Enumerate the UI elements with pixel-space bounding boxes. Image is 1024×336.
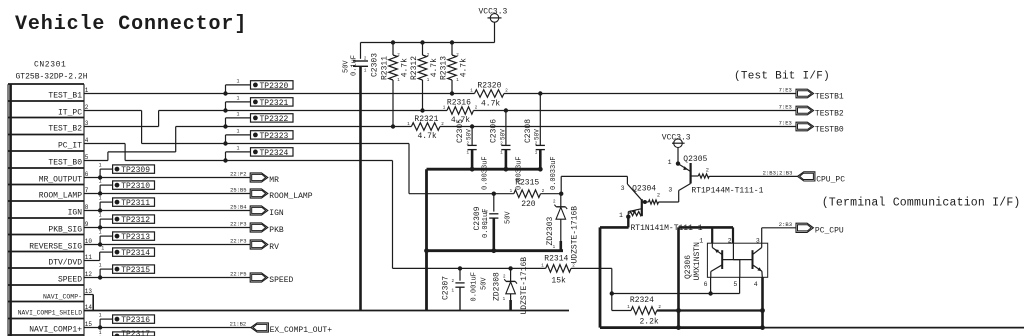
svg-text:2.2k: 2.2k (640, 317, 659, 326)
svg-text:1: 1 (99, 179, 102, 185)
svg-text:TP2312: TP2312 (121, 216, 150, 225)
svg-text:25:B4: 25:B4 (230, 204, 247, 211)
svg-text:21:B2: 21:B2 (230, 321, 247, 328)
svg-text:TP2314: TP2314 (121, 249, 150, 258)
svg-text:R2320: R2320 (477, 82, 501, 91)
svg-text:(Terminal Communication I/F): (Terminal Communication I/F) (822, 196, 1021, 209)
svg-text:TP2321: TP2321 (260, 99, 289, 108)
svg-text:1: 1 (99, 313, 102, 319)
svg-text:PC_CPU: PC_CPU (815, 227, 844, 236)
svg-text:NAVI_COMP-: NAVI_COMP- (43, 294, 82, 301)
svg-text:1: 1 (237, 96, 240, 102)
svg-text:5: 5 (733, 281, 737, 288)
svg-text:3: 3 (668, 187, 672, 194)
svg-text:0.1uF: 0.1uF (350, 55, 358, 76)
svg-text:1: 1 (668, 159, 672, 166)
svg-text:1: 1 (99, 196, 102, 202)
svg-text:R2313: R2313 (440, 56, 449, 80)
svg-text:C2305: C2305 (456, 119, 465, 143)
svg-text:TP2311: TP2311 (121, 199, 150, 208)
svg-text:PC_IT: PC_IT (58, 142, 82, 151)
svg-text:CN2301: CN2301 (34, 61, 66, 70)
svg-text:13: 13 (85, 288, 93, 295)
svg-text:15: 15 (85, 321, 93, 328)
svg-text:2:B3;2:B3: 2:B3;2:B3 (763, 169, 793, 176)
svg-text:3: 3 (621, 185, 625, 192)
svg-text:1: 1 (99, 330, 102, 336)
svg-text:4: 4 (85, 137, 89, 144)
svg-text:7:E3: 7:E3 (779, 103, 792, 110)
svg-text:R2324: R2324 (630, 296, 654, 305)
svg-text:50V: 50V (505, 211, 513, 224)
svg-text:50V: 50V (534, 129, 541, 140)
svg-text:0.0033uF: 0.0033uF (482, 156, 490, 190)
svg-text:RV: RV (269, 243, 279, 252)
svg-text:3: 3 (85, 120, 89, 127)
svg-text:12: 12 (85, 271, 93, 278)
svg-text:1: 1 (99, 213, 102, 219)
svg-text:IGN: IGN (269, 209, 284, 218)
svg-text:2: 2 (706, 168, 709, 174)
svg-text:TESTB2: TESTB2 (815, 110, 844, 119)
svg-text:TP2324: TP2324 (260, 149, 289, 158)
svg-text:1: 1 (101, 246, 104, 252)
svg-text:2:B3: 2:B3 (779, 221, 792, 228)
svg-text:1: 1 (237, 79, 240, 85)
svg-text:1: 1 (619, 212, 623, 219)
svg-text:3: 3 (756, 237, 760, 244)
svg-text:4.7k: 4.7k (481, 99, 500, 108)
svg-text:VCC3.3: VCC3.3 (662, 134, 691, 143)
svg-text:MR_OUTPUT: MR_OUTPUT (39, 176, 82, 185)
svg-text:PKB: PKB (269, 226, 284, 235)
svg-text:TEST_B2: TEST_B2 (48, 125, 82, 134)
svg-text:TESTB0: TESTB0 (815, 126, 844, 135)
svg-text:4.7k: 4.7k (418, 132, 437, 141)
svg-text:50V: 50V (466, 129, 473, 140)
svg-text:6: 6 (85, 171, 89, 178)
svg-text:Q2304: Q2304 (632, 185, 656, 194)
svg-text:TP2310: TP2310 (121, 182, 150, 191)
svg-text:4.7k: 4.7k (460, 58, 469, 77)
svg-text:UDZSTE-1716B: UDZSTE-1716B (520, 257, 529, 315)
svg-text:1: 1 (237, 129, 240, 135)
svg-text:IGN: IGN (68, 209, 83, 218)
svg-text:TP2309: TP2309 (121, 166, 150, 175)
svg-text:220: 220 (521, 200, 536, 209)
svg-text:ZD2303: ZD2303 (546, 216, 555, 245)
svg-text:Q2305: Q2305 (683, 155, 707, 164)
svg-text:NAVI_COMP1_SHIELD: NAVI_COMP1_SHIELD (18, 310, 82, 317)
svg-text:PKB_SIG: PKB_SIG (48, 226, 82, 235)
svg-text:1: 1 (99, 263, 102, 269)
svg-text:R2315: R2315 (515, 178, 539, 187)
svg-text:SPEED: SPEED (58, 276, 82, 285)
svg-text:ROOM_LAMP: ROOM_LAMP (39, 192, 82, 201)
svg-text:0.0033uF: 0.0033uF (550, 156, 558, 190)
svg-text:9: 9 (85, 221, 89, 228)
svg-text:2: 2 (85, 104, 89, 111)
svg-text:4: 4 (754, 281, 758, 288)
svg-text:IT_PC: IT_PC (58, 109, 82, 118)
svg-text:5: 5 (85, 154, 89, 161)
svg-text:TP2323: TP2323 (260, 132, 289, 141)
svg-text:TEST_B0: TEST_B0 (48, 159, 82, 168)
svg-text:22:F3: 22:F3 (230, 238, 247, 245)
svg-text:TP2320: TP2320 (260, 82, 289, 91)
svg-text:7: 7 (85, 187, 89, 194)
svg-text:DTV/DVD: DTV/DVD (48, 259, 82, 268)
svg-text:R2321: R2321 (414, 115, 438, 124)
svg-text:1: 1 (237, 146, 240, 152)
svg-text:UMX1NSTN: UMX1NSTN (693, 242, 702, 281)
svg-text:TESTB1: TESTB1 (815, 93, 844, 102)
svg-text:REVERSE_SIG: REVERSE_SIG (29, 243, 82, 252)
svg-text:50V: 50V (480, 277, 488, 290)
svg-text:4.7k: 4.7k (401, 58, 410, 77)
svg-text:(Test Bit I/F): (Test Bit I/F) (734, 71, 830, 83)
svg-text:NAVI_COMP1+: NAVI_COMP1+ (29, 326, 82, 335)
svg-text:R2311: R2311 (381, 56, 390, 80)
svg-text:CPU_PC: CPU_PC (816, 175, 845, 184)
svg-text:C2309: C2309 (473, 206, 482, 230)
svg-text:C2307: C2307 (442, 276, 451, 300)
svg-text:R2312: R2312 (410, 56, 419, 80)
svg-text:GT25B-32DP-2.2H: GT25B-32DP-2.2H (16, 73, 88, 82)
svg-text:VCC3.3: VCC3.3 (479, 8, 508, 17)
svg-text:22:F3: 22:F3 (230, 221, 247, 228)
svg-text:1: 1 (99, 230, 102, 236)
svg-text:10: 10 (85, 238, 93, 245)
svg-text:1: 1 (85, 87, 89, 94)
svg-text:Vehicle Connector]: Vehicle Connector] (15, 13, 247, 36)
svg-text:C2303: C2303 (371, 53, 380, 77)
svg-text:50V: 50V (499, 129, 506, 140)
svg-text:7:E3: 7:E3 (779, 86, 792, 93)
svg-text:7:E3: 7:E3 (779, 119, 792, 126)
svg-text:MR: MR (269, 176, 279, 185)
svg-text:C2306: C2306 (490, 119, 499, 143)
svg-text:25:B5: 25:B5 (230, 187, 247, 194)
svg-text:TP2313: TP2313 (121, 233, 150, 242)
svg-text:1: 1 (99, 163, 102, 169)
svg-text:TP2316: TP2316 (121, 316, 150, 325)
svg-text:R2314: R2314 (544, 254, 568, 263)
svg-text:22:F2: 22:F2 (230, 171, 247, 178)
svg-text:6: 6 (704, 281, 708, 288)
svg-text:1: 1 (699, 237, 703, 244)
svg-text:ROOM_LAMP: ROOM_LAMP (269, 192, 312, 201)
svg-text:RT1P144M-T111-1: RT1P144M-T111-1 (691, 186, 763, 195)
svg-text:8: 8 (85, 204, 89, 211)
svg-text:4.7k: 4.7k (430, 58, 439, 77)
svg-text:UDZSTE-1716B: UDZSTE-1716B (571, 206, 580, 264)
svg-text:SPEED: SPEED (269, 276, 293, 285)
svg-text:EX_COMP1_OUT+: EX_COMP1_OUT+ (270, 326, 333, 335)
svg-text:C2308: C2308 (524, 119, 533, 143)
svg-text:TEST_B1: TEST_B1 (48, 92, 82, 101)
svg-text:1: 1 (237, 112, 240, 118)
svg-text:R2316: R2316 (447, 98, 471, 107)
svg-text:22:F5: 22:F5 (230, 271, 247, 278)
svg-text:50V: 50V (342, 60, 350, 73)
svg-text:2: 2 (728, 237, 732, 244)
svg-text:2: 2 (657, 192, 660, 198)
svg-text:Q2306: Q2306 (684, 255, 693, 279)
svg-text:0.001uF: 0.001uF (470, 272, 478, 301)
svg-text:TP2317: TP2317 (121, 330, 150, 336)
svg-text:15k: 15k (551, 277, 566, 286)
svg-text:TP2315: TP2315 (121, 266, 150, 275)
svg-text:ZD2308: ZD2308 (493, 272, 502, 301)
svg-text:TP2322: TP2322 (260, 115, 289, 124)
svg-text:11: 11 (85, 254, 93, 261)
